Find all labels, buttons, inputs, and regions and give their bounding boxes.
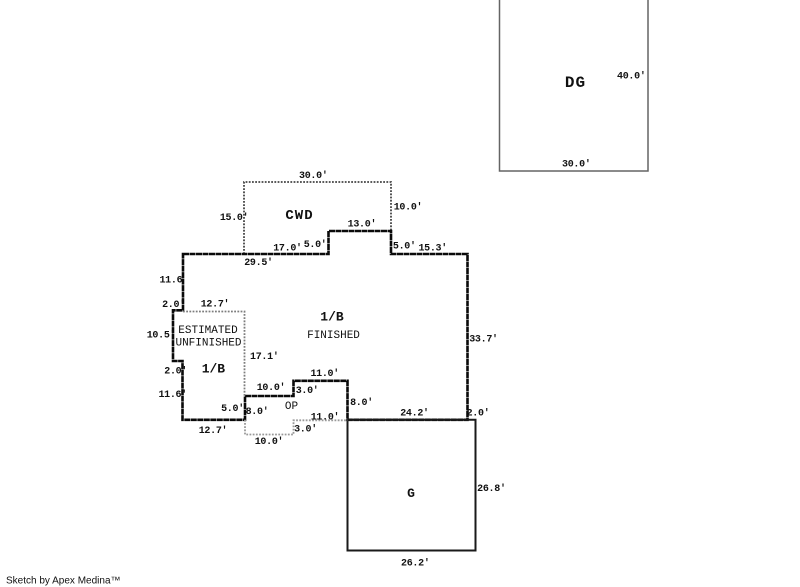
svg-text:Sketch by Apex Medina™: Sketch by Apex Medina™ bbox=[6, 576, 121, 587]
svg-text:2.0': 2.0' bbox=[162, 299, 185, 311]
OP dashed boundary bbox=[245, 420, 348, 435]
main 1/B finished outline bbox=[173, 231, 468, 420]
svg-text:30.0': 30.0' bbox=[562, 159, 591, 171]
svg-text:33.7': 33.7' bbox=[469, 334, 498, 346]
svg-text:1/B: 1/B bbox=[202, 362, 226, 377]
svg-text:10.0': 10.0' bbox=[257, 382, 286, 394]
svg-text:11.0': 11.0' bbox=[311, 412, 340, 424]
svg-text:OP: OP bbox=[285, 401, 299, 413]
svg-text:3.0': 3.0' bbox=[296, 385, 319, 397]
svg-text:11.6: 11.6 bbox=[159, 276, 182, 287]
svg-text:8.0': 8.0' bbox=[350, 397, 373, 409]
svg-text:10.0': 10.0' bbox=[394, 201, 423, 213]
svg-text:17.0': 17.0' bbox=[273, 243, 302, 255]
svg-text:40.0': 40.0' bbox=[617, 70, 646, 82]
svg-text:24.2': 24.2' bbox=[400, 408, 429, 420]
svg-text:26.8': 26.8' bbox=[477, 483, 506, 495]
estimated unfinished dashed boundary bbox=[183, 312, 245, 397]
svg-text:11.6': 11.6' bbox=[158, 389, 187, 401]
svg-text:10.5': 10.5' bbox=[147, 330, 176, 342]
svg-text:2.0': 2.0' bbox=[164, 366, 187, 378]
svg-text:26.2': 26.2' bbox=[401, 558, 430, 570]
svg-text:8.0': 8.0' bbox=[246, 406, 269, 418]
svg-text:CWD: CWD bbox=[285, 208, 313, 224]
CWD dashed outline bbox=[244, 182, 391, 254]
svg-text:15.3': 15.3' bbox=[418, 243, 447, 255]
svg-text:15.0': 15.0' bbox=[220, 212, 249, 224]
svg-text:G: G bbox=[407, 486, 415, 501]
svg-text:10.0': 10.0' bbox=[255, 436, 284, 448]
svg-text:5.0': 5.0' bbox=[221, 403, 244, 415]
svg-text:12.7': 12.7' bbox=[201, 298, 230, 310]
svg-text:5.0': 5.0' bbox=[393, 240, 416, 252]
detached garage DG rectangle bbox=[500, 0, 649, 171]
garage G rectangle bbox=[348, 420, 476, 551]
svg-text:17.1': 17.1' bbox=[250, 351, 279, 363]
svg-text:UNFINISHED: UNFINISHED bbox=[175, 338, 241, 350]
svg-text:3.0': 3.0' bbox=[294, 423, 317, 435]
svg-text:ESTIMATED: ESTIMATED bbox=[178, 325, 238, 337]
svg-text:11.0': 11.0' bbox=[310, 368, 339, 380]
svg-text:29.5': 29.5' bbox=[244, 257, 273, 269]
svg-text:FINISHED: FINISHED bbox=[307, 330, 360, 342]
svg-text:12.7': 12.7' bbox=[199, 425, 228, 437]
svg-text:30.0': 30.0' bbox=[299, 170, 328, 182]
svg-text:13.0': 13.0' bbox=[348, 219, 377, 231]
svg-text:2.0': 2.0' bbox=[467, 408, 490, 420]
svg-text:DG: DG bbox=[565, 74, 586, 92]
svg-text:1/B: 1/B bbox=[320, 310, 344, 325]
svg-text:5.0': 5.0' bbox=[304, 239, 327, 251]
